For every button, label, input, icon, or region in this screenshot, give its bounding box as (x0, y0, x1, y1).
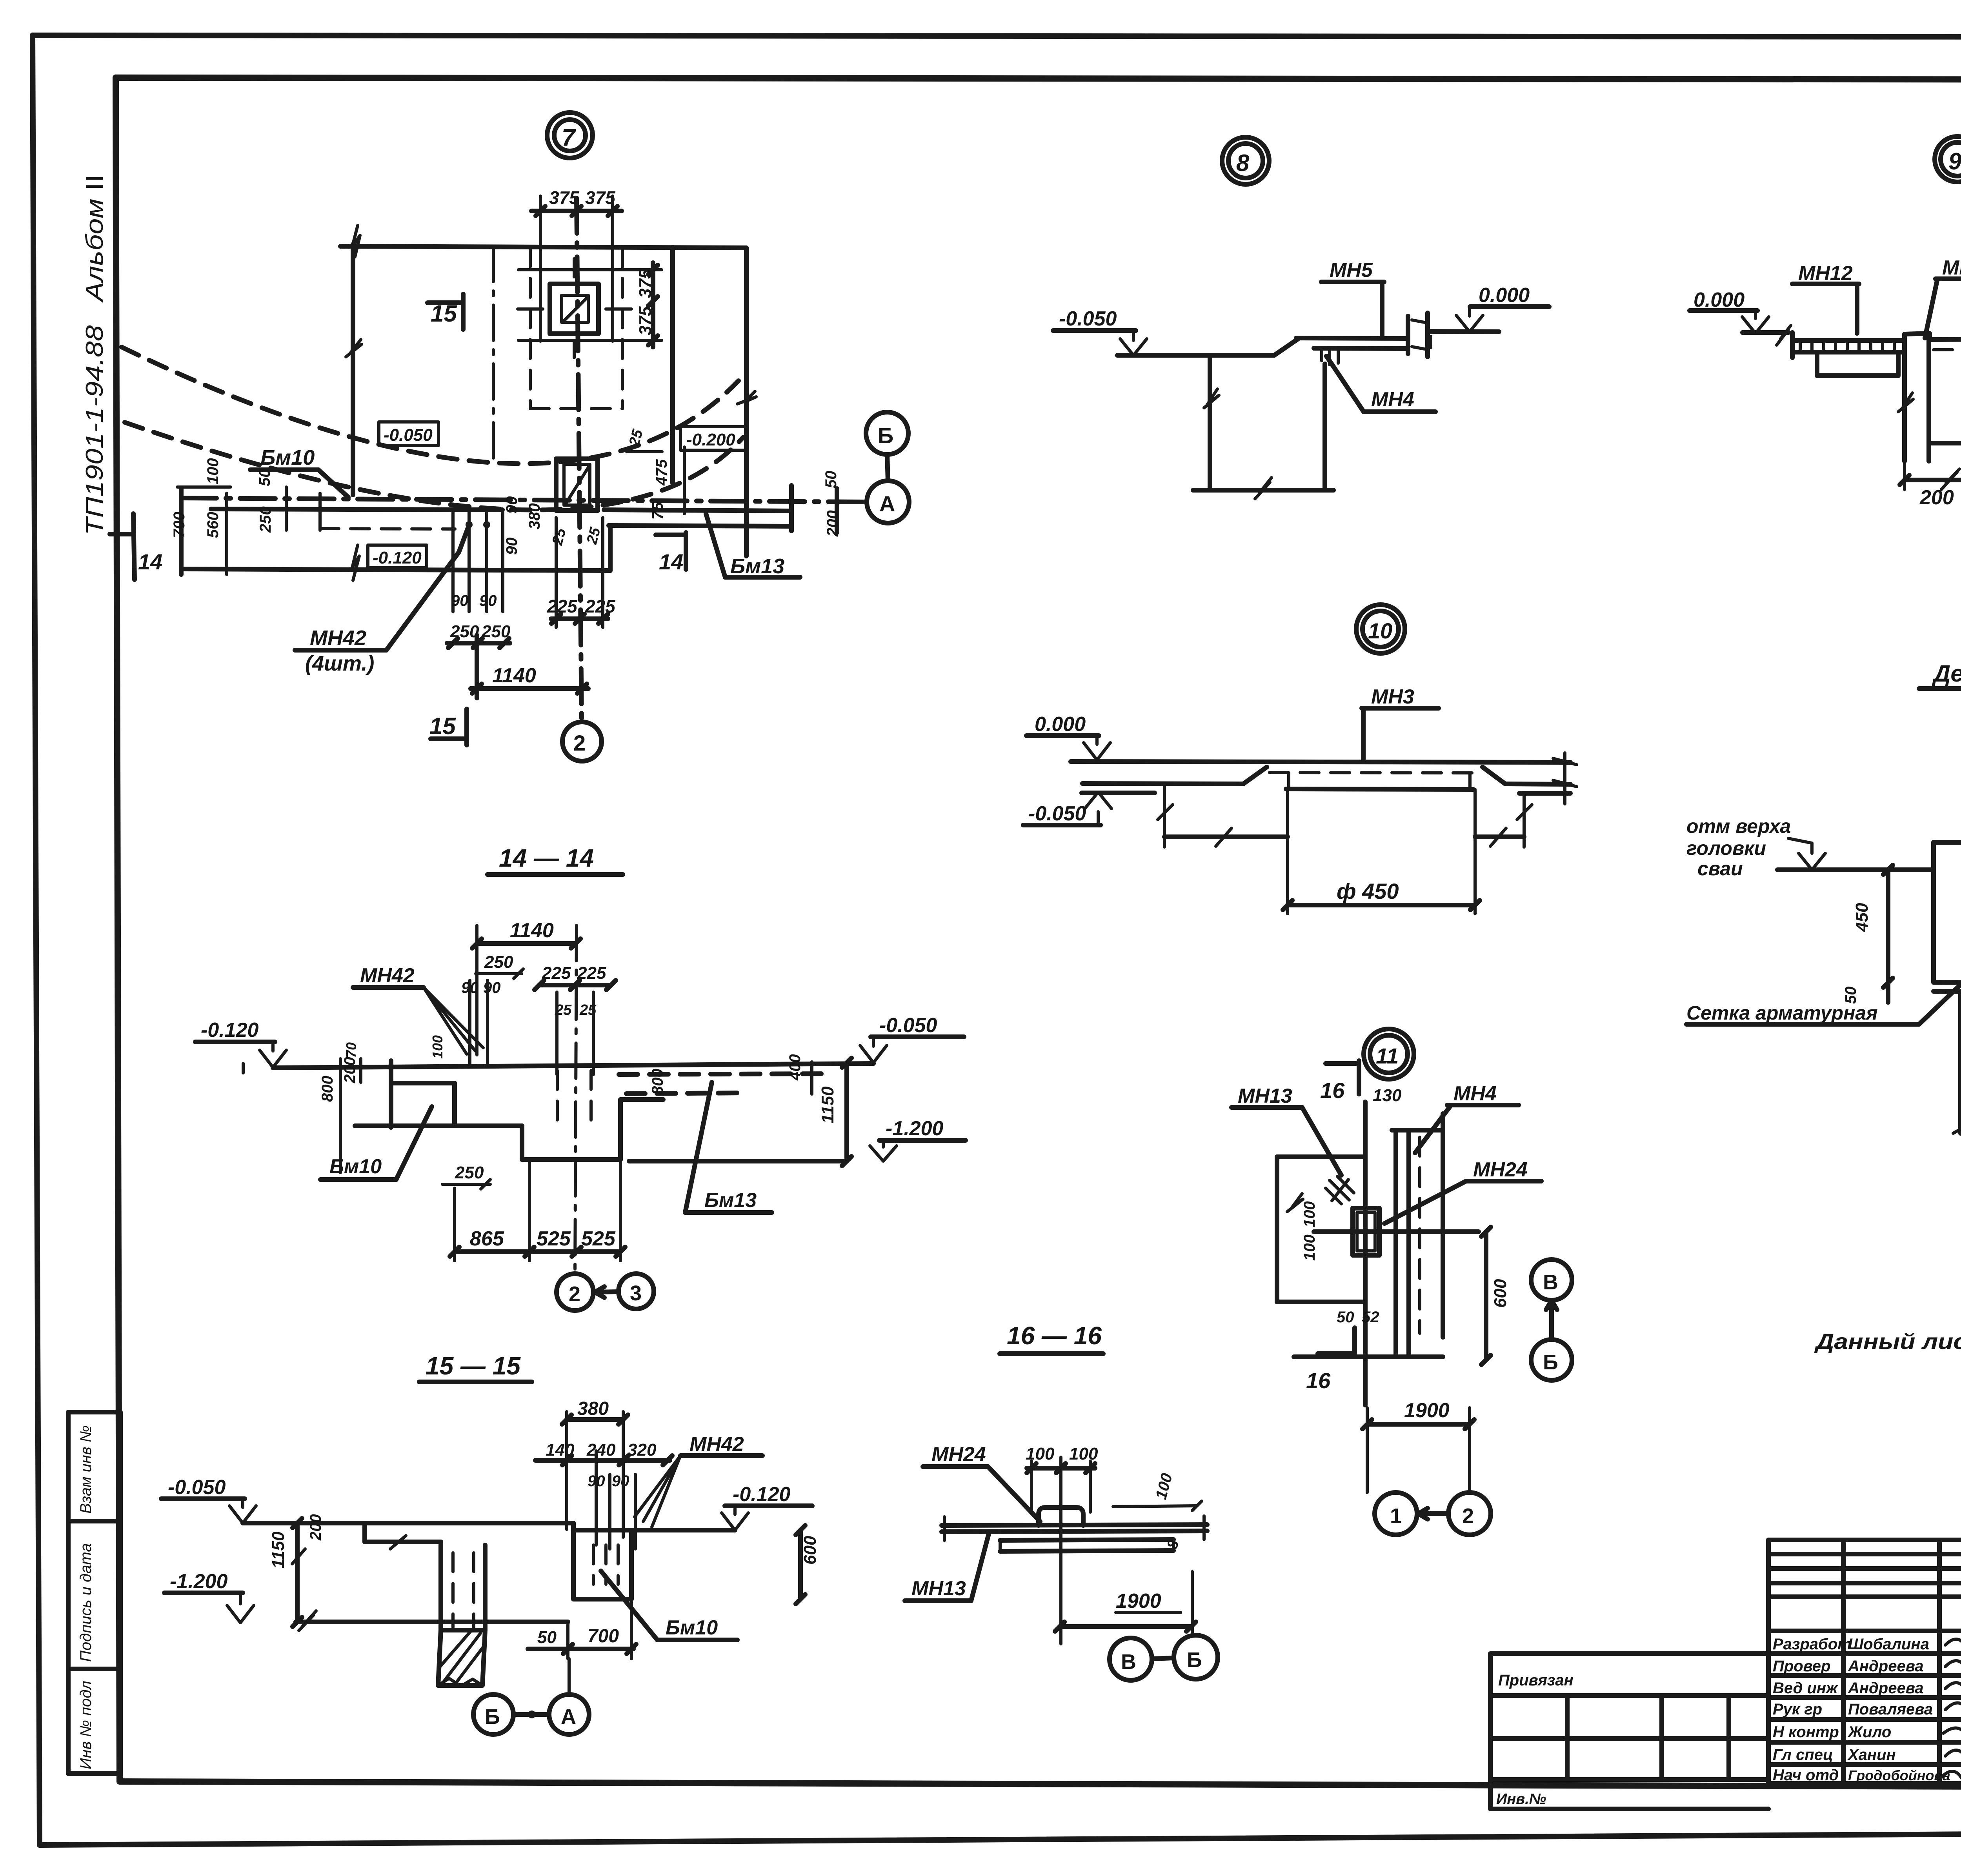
svg-text:-0.120: -0.120 (373, 548, 422, 567)
break on right edge (737, 391, 756, 404)
outer border bottom (40, 1831, 1961, 1845)
slab bottom (det10) (1286, 789, 1473, 789)
svg-text:700: 700 (588, 1626, 619, 1647)
svg-text:90: 90 (503, 538, 520, 555)
right slab dashed underside (1934, 349, 1961, 350)
left aux table (1490, 1654, 1768, 1809)
svg-text:700: 700 (171, 512, 188, 538)
axis circle A (867, 481, 909, 523)
witness bottom dims (s14) (455, 1161, 620, 1261)
svg-text:8: 8 (1236, 150, 1250, 176)
top line left (s15) (243, 1521, 573, 1525)
middle pier verticals (1905, 340, 1929, 461)
slab end joint ticks (1408, 313, 1428, 357)
main table outline (1768, 1540, 1961, 1783)
svg-text:Взам инв №: Взам инв № (77, 1425, 95, 1514)
svg-text:25: 25 (549, 526, 569, 547)
line between V and B (1546, 1300, 1557, 1340)
svg-text:Гл спец: Гл спец (1773, 1746, 1833, 1763)
witness right (s16) (1191, 1572, 1194, 1636)
top line (s14) (273, 1063, 873, 1068)
right small ticks (1553, 753, 1577, 804)
svg-text:Андреева: Андреева (1848, 1680, 1924, 1697)
leader MN42 (386, 527, 468, 650)
beam hidden edge dashed (320, 529, 455, 529)
beam top line left (211, 509, 502, 510)
svg-text:Б: Б (1543, 1351, 1558, 1374)
svg-text:-1.200: -1.200 (170, 1570, 228, 1593)
witness 4 (318, 493, 322, 530)
svg-text:Данный лист рассматривать с: Данный лист рассматривать совместно с л … (1814, 1329, 1961, 1354)
svg-text:Жило: Жило (1847, 1723, 1891, 1741)
svg-text:1150: 1150 (269, 1531, 288, 1569)
elevation box -0.200 (680, 427, 746, 450)
svg-text:75: 75 (649, 502, 666, 520)
svg-text:100: 100 (1152, 1471, 1176, 1501)
svg-text:50: 50 (1337, 1309, 1354, 1326)
svg-text:Н контр: Н контр (1773, 1723, 1839, 1741)
left slab bottom (s15) (365, 1540, 441, 1544)
lower slab left tick (179, 488, 184, 574)
right block dashed rebars (s15) (593, 1545, 618, 1584)
svg-text:Б: Б (485, 1705, 500, 1729)
svg-text:10: 10 (1368, 618, 1392, 643)
svg-text:200: 200 (824, 510, 841, 537)
pocket dashed vertical right (621, 248, 624, 409)
svg-text:МН4: МН4 (1942, 256, 1961, 279)
leader otm (1788, 838, 1825, 870)
wall left vertical (1208, 355, 1212, 489)
svg-text:100: 100 (1069, 1444, 1098, 1463)
plate dashed top (det10) (1270, 773, 1480, 773)
axis circle 2 (s14) (557, 1274, 593, 1311)
svg-text:1900: 1900 (1116, 1590, 1161, 1612)
plate horizontal top (det11) (1392, 1128, 1443, 1133)
svg-text:525: 525 (581, 1227, 616, 1250)
witness to circle A (568, 1659, 571, 1694)
inner frame bottom (120, 1781, 1961, 1788)
svg-text:90: 90 (612, 1472, 629, 1490)
svg-text:Ханин: Ханин (1847, 1746, 1896, 1763)
break mark mid (s15) (299, 1611, 316, 1631)
dashed arc upper (122, 347, 739, 464)
break on bottom dim (1255, 478, 1272, 499)
svg-text:100: 100 (1301, 1234, 1318, 1261)
axis circle B (s15) (473, 1694, 513, 1734)
svg-text:14 — 14: 14 — 14 (499, 844, 594, 872)
svg-text:-1.200: -1.200 (886, 1117, 944, 1140)
svg-text:14: 14 (138, 549, 162, 574)
svg-text:240: 240 (586, 1440, 616, 1460)
break mark on top edge (352, 225, 360, 257)
link line (s16) (1152, 1658, 1174, 1659)
svg-text:Разработ: Разработ (1773, 1636, 1852, 1653)
svg-text:100: 100 (429, 1035, 446, 1059)
ground line left (1117, 353, 1274, 358)
svg-text:МН24: МН24 (931, 1443, 986, 1466)
svg-text:50: 50 (537, 1628, 557, 1647)
svg-text:МН4: МН4 (1453, 1082, 1497, 1105)
left slab lower line (1792, 350, 1905, 354)
svg-text:Бм13: Бм13 (730, 554, 784, 578)
dim line 200 (1905, 478, 1961, 482)
strip end hooks (s16) (1000, 1540, 1173, 1551)
svg-text:0.000: 0.000 (1035, 713, 1086, 736)
svg-text:50: 50 (256, 469, 273, 487)
right slab top (1930, 339, 1961, 340)
svg-text:-0.050: -0.050 (879, 1014, 937, 1037)
svg-text:-0.120: -0.120 (733, 1483, 791, 1506)
dim line left segment (1164, 834, 1288, 839)
bottom dim line (1193, 488, 1333, 493)
svg-text:Бм10: Бм10 (329, 1155, 382, 1178)
svg-text:Б: Б (1187, 1648, 1202, 1672)
pocket dashed bottom (530, 407, 622, 410)
witness verticals with breaks (det10) (1164, 783, 1524, 914)
svg-text:Нач отд: Нач отд (1773, 1767, 1839, 1784)
svg-text:865: 865 (470, 1227, 504, 1250)
svg-text:200: 200 (341, 1057, 358, 1083)
ledge line (s14) (355, 1123, 522, 1128)
axis circle 1 (1375, 1492, 1417, 1535)
name rows (1768, 1629, 1961, 1633)
svg-text:600: 600 (800, 1536, 820, 1565)
svg-text:В: В (1543, 1271, 1558, 1294)
cap left vertical (1931, 842, 1936, 982)
hidden dashed verticals (s14) (557, 1071, 591, 1127)
axis circle 3 (s14) (618, 1274, 654, 1309)
signatures squiggles (1941, 1639, 1961, 1800)
svg-text:Бм10: Бм10 (260, 446, 315, 469)
slab continuation line (1431, 331, 1499, 332)
view circle 8 (1222, 137, 1269, 184)
svg-text:100: 100 (1026, 1444, 1055, 1463)
svg-text:450: 450 (1852, 903, 1872, 932)
svg-text:ТП1901-1-94.88 Альбом II: ТП1901-1-94.88 Альбом II (81, 175, 108, 535)
dash-dot inner vertical (492, 246, 495, 462)
plate end ticks (s16) (944, 1516, 1204, 1540)
wall right vertical (1322, 364, 1327, 489)
axis circle B (Б) (866, 412, 908, 454)
leader MN5 (1380, 282, 1384, 337)
web right vertical (s14) (618, 1100, 623, 1160)
svg-text:Сетка арматурная: Сетка арматурная (1686, 1002, 1878, 1024)
break on left slab verticals (292, 1536, 406, 1564)
svg-text:15 — 15: 15 — 15 (426, 1352, 521, 1380)
svg-text:Провер: Провер (1773, 1658, 1830, 1675)
svg-text:375: 375 (636, 306, 655, 335)
svg-text:25: 25 (626, 427, 646, 449)
svg-text:400: 400 (786, 1054, 804, 1081)
beam top line right (604, 510, 791, 511)
step down (s14) (520, 1126, 524, 1160)
svg-text:МН5: МН5 (1330, 259, 1373, 282)
left witness vertical 2 (225, 493, 228, 574)
svg-text:1900: 1900 (1404, 1399, 1450, 1422)
web verticals (s15) (441, 1542, 485, 1630)
witness verticals (s15) (567, 1412, 635, 1549)
ground line left (det9) (1743, 330, 1788, 335)
axis witness (s14) (575, 925, 577, 1274)
plate top line (s16) (942, 1525, 1207, 1525)
dim ticks near column top (627, 447, 684, 514)
witness for 225 dims (556, 518, 603, 627)
svg-text:475: 475 (653, 459, 670, 486)
svg-text:15: 15 (429, 713, 456, 739)
svg-text:-0.050: -0.050 (1059, 307, 1117, 330)
anchor hook under slab (1322, 350, 1338, 365)
svg-text:7: 7 (562, 124, 576, 151)
left slab bottom (s14) (391, 1081, 455, 1085)
column section upper (562, 295, 588, 322)
svg-text:сваи: сваи (1697, 858, 1743, 880)
svg-text:Вед инж: Вед инж (1773, 1680, 1839, 1697)
svg-text:200: 200 (307, 1514, 324, 1541)
svg-text:Привязан: Привязан (1498, 1672, 1574, 1689)
under strip bottom (s16) (1000, 1551, 1173, 1551)
left embedded box MN12 (1817, 352, 1898, 376)
svg-text:Поваляева: Поваляева (1848, 1701, 1933, 1718)
pile hatched (s15) (438, 1630, 485, 1685)
svg-text:25: 25 (584, 525, 604, 547)
svg-text:90: 90 (451, 592, 469, 609)
right dashed underside (s14) (619, 1074, 829, 1074)
axis circle V (det11) (1531, 1260, 1572, 1300)
pile bottom zigzag (438, 1678, 482, 1686)
svg-text:-0.050: -0.050 (384, 425, 433, 445)
column diagonal upper (564, 297, 588, 321)
center axis (s16) (1059, 1457, 1062, 1644)
break on left edge (346, 340, 362, 357)
left slab top (1792, 338, 1905, 343)
left vertical main (1363, 1102, 1368, 1405)
mid level line left (1082, 783, 1243, 784)
bottom line (s15) (296, 1620, 568, 1624)
left region outline (1277, 1157, 1365, 1302)
small joint arrows (1412, 320, 1431, 349)
svg-text:МН13: МН13 (911, 1577, 966, 1600)
svg-text:11: 11 (1376, 1043, 1399, 1068)
channel MN24 in section (1353, 1208, 1379, 1255)
svg-text:100: 100 (1301, 1201, 1318, 1227)
slab bottom drop (s14) (452, 1083, 457, 1126)
svg-text:525: 525 (537, 1227, 571, 1250)
horizontal mid line (det11) (1314, 1229, 1479, 1234)
bottom horizontal (det11) (1294, 1354, 1443, 1359)
svg-text:Рук гр: Рук гр (1773, 1701, 1822, 1718)
break on wall left (1204, 389, 1219, 408)
svg-text:1: 1 (1390, 1504, 1402, 1528)
svg-text:130: 130 (1373, 1086, 1402, 1105)
svg-text:250: 250 (484, 953, 513, 972)
axis circle 2 (562, 722, 602, 761)
column pocket square upper (550, 284, 598, 334)
left tick under top line (339, 1059, 342, 1172)
svg-text:225: 225 (585, 596, 616, 616)
dashed inner vertical (1418, 1137, 1421, 1333)
line from beam to circle A (837, 500, 867, 504)
svg-text:МН4: МН4 (1371, 388, 1414, 411)
left slab left tick (1790, 333, 1795, 358)
svg-text:МН13: МН13 (1238, 1085, 1292, 1107)
web bottom (s14) (522, 1157, 620, 1162)
right block (s15) (573, 1530, 631, 1599)
svg-text:1150: 1150 (818, 1086, 837, 1123)
beam bottom line right (609, 525, 791, 526)
svg-text:380: 380 (577, 1398, 609, 1419)
plate bottom line (s16) (942, 1531, 1207, 1532)
svg-text:Деталь заделки головки: Деталь заделки головки (1932, 660, 1961, 687)
svg-text:320: 320 (628, 1440, 657, 1460)
pocket dashed vertical left (529, 248, 532, 409)
slab bottom line (1314, 348, 1407, 349)
columns of signature table (1841, 1540, 1846, 1783)
break on 200 dim (1941, 469, 1959, 489)
witness down from pier (1905, 443, 1961, 489)
svg-text:600: 600 (1491, 1279, 1510, 1308)
top level line (det10) (1071, 762, 1570, 762)
slope up to slab (1274, 339, 1298, 355)
svg-text:ф 450: ф 450 (1337, 879, 1399, 903)
beam end ticks (791, 485, 837, 533)
left slab hatching (1800, 340, 1894, 352)
short top tick line left dims (177, 485, 231, 489)
svg-text:70: 70 (343, 1042, 359, 1058)
view circle 7 (547, 113, 593, 158)
svg-text:800: 800 (649, 1069, 666, 1095)
elevation arrow -0.050 (1120, 331, 1147, 355)
svg-text:90: 90 (483, 979, 501, 996)
svg-text:200: 200 (1919, 486, 1954, 509)
svg-text:-0.120: -0.120 (201, 1019, 259, 1042)
plate end hooks (1289, 773, 1470, 789)
web dashed inner (s15) (453, 1553, 474, 1627)
dim line at column level (518, 270, 662, 340)
under strip top (s16) (1000, 1540, 1173, 1540)
verticals of element (1396, 1114, 1443, 1357)
witness 3 (285, 487, 288, 530)
svg-text:МН42: МН42 (310, 626, 366, 650)
elevation box -0.120 (368, 545, 427, 568)
vertical dim line 375/375 right of column (648, 263, 658, 347)
svg-text:16: 16 (1306, 1368, 1331, 1393)
svg-text:А: А (879, 491, 895, 516)
svg-text:0.000: 0.000 (1479, 284, 1530, 307)
plan top edge (340, 246, 746, 248)
elevation box -0.050 (379, 422, 438, 445)
svg-text:-0.050: -0.050 (1028, 802, 1086, 825)
svg-text:Гродобойнова: Гродобойнова (1848, 1767, 1950, 1783)
leader MN4 (1326, 356, 1364, 412)
view circle 10 (1356, 605, 1405, 653)
svg-text:16: 16 (1320, 1078, 1345, 1103)
svg-text:14: 14 (659, 549, 683, 574)
signature rows labels (1773, 1636, 1961, 1784)
svg-text:-0.200: -0.200 (686, 430, 735, 449)
outer border top (33, 35, 1961, 37)
svg-text:2: 2 (1462, 1504, 1474, 1528)
left slab left edge vertical (s15) (362, 1523, 367, 1542)
svg-text:головки: головки (1686, 837, 1766, 859)
bottom line right (s14) (629, 1159, 847, 1163)
ledge right (s14) (620, 1097, 663, 1102)
arrow line between 1 and 2 (1417, 1508, 1448, 1519)
lower ground left (det10) (1082, 791, 1155, 795)
link line B-A with dot (513, 1712, 549, 1717)
trapezoid right slant (1483, 767, 1505, 784)
svg-text:16 — 16: 16 — 16 (1007, 1322, 1102, 1350)
right block bottom (1929, 441, 1961, 445)
witness 1140 left (475, 925, 478, 1055)
axis circle B2 (det11) (1531, 1340, 1572, 1380)
lower ground right (det10) (1519, 791, 1570, 796)
wall edge vertical (between -0.050 and -0.200) (670, 247, 675, 483)
dashed arc lower (125, 422, 743, 510)
small break at left ground (1777, 325, 1791, 345)
svg-text:(4шт.): (4шт.) (305, 652, 374, 675)
column diagonal lower (566, 467, 588, 503)
step to beam bottom (608, 526, 613, 571)
svg-text:А: А (561, 1705, 576, 1729)
step at right (s15) (573, 1523, 735, 1530)
lower slab bottom line (181, 569, 610, 571)
break on lower slab (352, 545, 359, 580)
cap top edge (1934, 840, 1961, 845)
svg-text:МН12: МН12 (1798, 262, 1853, 285)
inner frame top (116, 78, 1961, 80)
svg-text:90: 90 (479, 592, 497, 609)
witness verticals group (s14) (470, 980, 593, 1074)
svg-text:отм верха: отм верха (1686, 815, 1791, 837)
svg-text:50: 50 (822, 471, 840, 489)
cap bottom second line (1934, 991, 1961, 992)
axis circle A (s15) (549, 1694, 589, 1734)
column square lower (556, 459, 598, 511)
right dashed lower (s14) (626, 1093, 744, 1094)
svg-text:250: 250 (455, 1163, 484, 1182)
outer border left (33, 35, 40, 1845)
arrow between 2 and 3 (593, 1287, 618, 1298)
trapezoid left slant (1243, 767, 1267, 784)
svg-text:560: 560 (204, 512, 222, 538)
plan left edge vertical (351, 244, 355, 495)
inner frame left (116, 78, 120, 1781)
svg-text:9: 9 (1948, 148, 1961, 175)
svg-text:375: 375 (636, 269, 655, 298)
svg-text:МН3: МН3 (1371, 685, 1414, 708)
svg-text:2: 2 (573, 731, 586, 755)
level line for cap top (1777, 867, 1934, 872)
svg-text:Подпись и дата: Подпись и дата (77, 1543, 95, 1662)
column section lower (564, 464, 590, 505)
slab top line (1296, 338, 1407, 338)
svg-text:380: 380 (526, 503, 543, 529)
svg-text:0.000: 0.000 (1694, 289, 1745, 311)
witness to circles (1367, 1408, 1470, 1492)
svg-text:2: 2 (569, 1282, 580, 1306)
hatch mark (1326, 1176, 1354, 1204)
small left dim ticks (243, 1059, 361, 1082)
dim line right segment (1475, 834, 1524, 839)
narrow rows (1768, 1552, 1961, 1556)
svg-text:Б: Б (878, 423, 893, 448)
channel bump (s16) (1039, 1507, 1083, 1525)
svg-text:52: 52 (1362, 1309, 1379, 1326)
left margin table (68, 1412, 120, 1774)
view circle 9 (1935, 136, 1961, 182)
axis circle 2b (1448, 1492, 1491, 1535)
svg-text:250: 250 (257, 506, 274, 533)
